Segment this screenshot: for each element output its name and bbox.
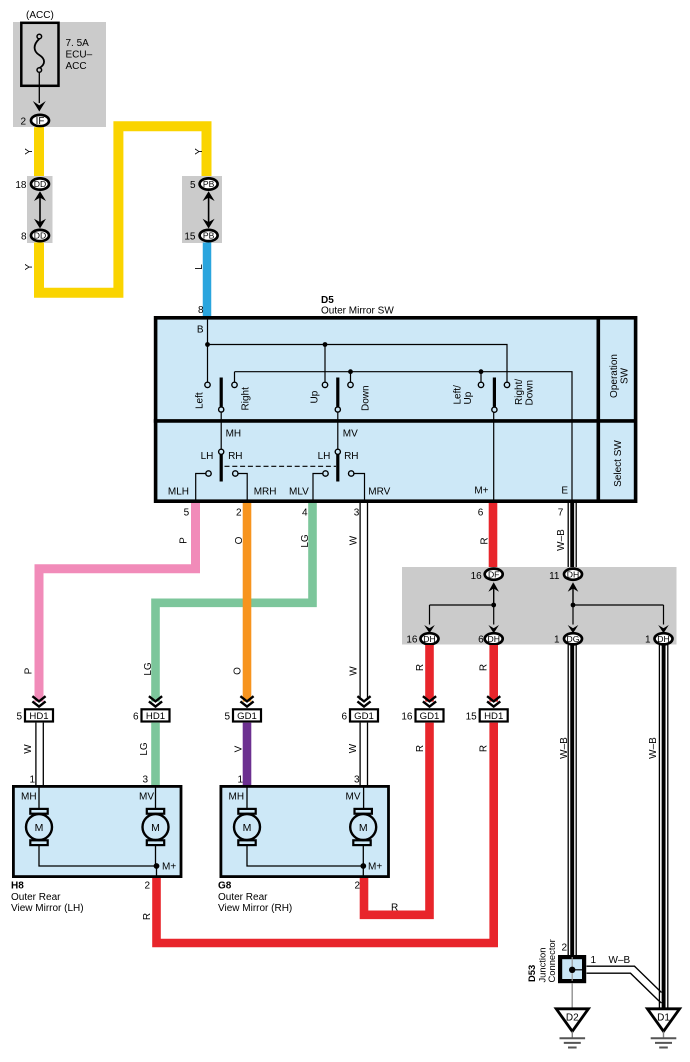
- svg-text:LG: LG: [143, 662, 154, 676]
- svg-text:5: 5: [190, 180, 196, 191]
- double arrow PB5-PB15: [203, 191, 215, 228]
- contact Up: [322, 382, 327, 387]
- connector DD pin 8: [21, 230, 49, 242]
- svg-text:HD1: HD1: [146, 711, 165, 722]
- svg-text:1: 1: [554, 634, 560, 645]
- contact LH (MV): [323, 471, 328, 476]
- wire branch right: [573, 605, 664, 625]
- wire Y (DD8 to PB5): [39, 126, 207, 293]
- wire branch left: [430, 605, 494, 625]
- svg-text:View Mirror (LH): View Mirror (LH): [11, 903, 84, 914]
- connector HD1 pin 5: [16, 709, 53, 722]
- wire W (pin3 to GD1-6): [360, 503, 367, 700]
- svg-text:Right: Right: [241, 387, 252, 411]
- svg-text:Outer Rear: Outer Rear: [11, 892, 61, 903]
- svg-text:Outer Mirror SW: Outer Mirror SW: [321, 306, 394, 317]
- svg-text:W–B: W–B: [609, 955, 631, 966]
- svg-text:8: 8: [198, 305, 204, 316]
- wire MLV: [313, 474, 323, 502]
- mirror H8 Outer Rear View Mirror LH: [13, 786, 181, 876]
- svg-text:MLH: MLH: [168, 487, 189, 498]
- svg-text:HD1: HD1: [29, 711, 48, 722]
- svg-text:Left: Left: [195, 392, 206, 409]
- svg-text:V: V: [234, 745, 245, 752]
- svg-text:11: 11: [549, 571, 560, 582]
- wire W-B (DH1 to D1): [659, 645, 667, 1009]
- connector DH pin 11: [549, 569, 582, 582]
- svg-text:5: 5: [184, 507, 190, 518]
- arrow down into DH1 right: [658, 625, 669, 633]
- svg-text:M: M: [359, 822, 368, 834]
- svg-text:W: W: [23, 744, 34, 754]
- motor M (G8 MH): [234, 809, 260, 845]
- wire W (HD1-5 to H8 pin1): [36, 723, 43, 786]
- arrow up into DH11: [568, 582, 579, 605]
- connector PB pin 15: [184, 230, 217, 242]
- svg-text:LG: LG: [300, 534, 311, 548]
- chevron into HD1-5: [32, 696, 45, 706]
- wire R (DH16 to GD1-16): [425, 645, 434, 702]
- wire MRV: [354, 474, 364, 502]
- wire M+ bus G8: [247, 846, 363, 877]
- svg-text:6: 6: [478, 634, 484, 645]
- svg-text:6: 6: [341, 712, 347, 723]
- node junction below DF: [491, 603, 496, 608]
- wire R (HD1-15 down, loop to H8 pin2): [157, 723, 494, 943]
- contact Left/Up: [478, 382, 483, 387]
- svg-text:P: P: [179, 537, 190, 544]
- ground D1: [647, 1009, 679, 1048]
- svg-text:G8: G8: [218, 881, 232, 892]
- svg-text:MH: MH: [229, 791, 245, 802]
- junction connector D53: [560, 957, 584, 981]
- connector GD1 pin 5: [224, 709, 261, 722]
- wire MV: [337, 412, 339, 449]
- svg-text:IF: IF: [36, 116, 45, 127]
- wire Y (IF to DD18): [34, 127, 44, 177]
- svg-text:RH: RH: [228, 451, 242, 462]
- svg-text:M+: M+: [474, 486, 488, 497]
- svg-text:MRH: MRH: [254, 487, 277, 498]
- svg-text:R: R: [415, 745, 426, 752]
- wire M+: [493, 413, 495, 502]
- svg-text:LG: LG: [139, 742, 150, 756]
- svg-text:Down: Down: [360, 385, 371, 411]
- svg-text:GD1: GD1: [420, 711, 440, 722]
- svg-text:ECU–: ECU–: [66, 50, 93, 61]
- svg-text:W: W: [349, 666, 360, 676]
- svg-text:ACC: ACC: [66, 61, 87, 72]
- connector GD1 pin 16: [401, 709, 443, 722]
- wire W-B (pin7 to DH11): [568, 503, 576, 569]
- svg-text:R: R: [479, 745, 490, 752]
- svg-text:View Mirror (RH): View Mirror (RH): [218, 903, 292, 914]
- svg-text:M: M: [35, 822, 44, 834]
- wire W-B (DG1 to D53): [568, 645, 576, 956]
- svg-text:P: P: [24, 667, 35, 674]
- wire V (GD1-5 to G8 pin1): [243, 723, 252, 786]
- contact LH (MH): [206, 471, 211, 476]
- svg-text:Up: Up: [309, 390, 320, 403]
- svg-text:R: R: [480, 537, 491, 544]
- select pivot MV: [335, 449, 340, 481]
- contact Left: [205, 382, 210, 387]
- svg-text:6: 6: [478, 507, 484, 518]
- wire R (DH6 to HD1-15): [489, 645, 498, 702]
- svg-text:MH: MH: [226, 429, 242, 440]
- connector HD1 pin 6: [133, 709, 170, 722]
- svg-text:Right/: Right/: [514, 379, 525, 405]
- svg-text:LH: LH: [318, 451, 331, 462]
- fuse F ECU-ACC 7.5A: [21, 23, 92, 86]
- svg-text:Y: Y: [24, 263, 35, 270]
- svg-text:MV: MV: [139, 791, 154, 802]
- contact Right: [232, 382, 237, 387]
- fuse block background: [13, 22, 106, 127]
- arrow up into DF: [488, 582, 499, 605]
- svg-text:M+: M+: [162, 862, 176, 873]
- svg-text:D1: D1: [657, 1013, 670, 1024]
- svg-text:16: 16: [471, 571, 483, 582]
- svg-text:DG: DG: [567, 634, 580, 644]
- chevron into GD1-16: [423, 696, 436, 706]
- svg-text:2: 2: [144, 881, 150, 892]
- contact RH (MH): [233, 471, 238, 476]
- svg-text:W–B: W–B: [556, 529, 567, 551]
- motor M (H8 MH): [26, 809, 52, 845]
- svg-text:DH: DH: [657, 634, 669, 644]
- wire W (GD1-6 to G8 pin3): [360, 723, 367, 786]
- wire LG (HD1-6 to H8 pin3): [151, 723, 160, 786]
- svg-text:B: B: [197, 325, 204, 336]
- connector DH pin 6: [478, 633, 503, 645]
- svg-text:W–B: W–B: [648, 737, 659, 759]
- connector DD pin 18: [15, 178, 49, 190]
- svg-text:15: 15: [184, 231, 196, 242]
- contact RH (MV): [349, 471, 354, 476]
- junction block PB background: [182, 176, 222, 243]
- chevron into HD1-6: [149, 696, 162, 706]
- chevron into HD1-15: [487, 696, 500, 706]
- wire W-B (D53 pin1 to D1 run): [587, 966, 662, 1003]
- svg-text:4: 4: [302, 507, 308, 518]
- svg-text:Left/: Left/: [453, 385, 464, 405]
- wire pin3 to motor MV: [155, 786, 157, 809]
- mirror G8 Outer Rear View Mirror RH: [221, 786, 389, 876]
- svg-text:5: 5: [224, 712, 230, 723]
- svg-text:MLV: MLV: [289, 487, 309, 498]
- svg-text:D53: D53: [526, 965, 537, 982]
- svg-text:2: 2: [354, 881, 360, 892]
- wire R (GD1-16 down, loop to G8 pin2): [364, 723, 430, 915]
- svg-text:5: 5: [16, 712, 22, 723]
- svg-text:3: 3: [354, 507, 360, 518]
- wire line2 to E: [235, 369, 573, 501]
- svg-text:GD1: GD1: [354, 711, 374, 722]
- svg-text:R: R: [391, 903, 398, 914]
- wire R (pin6 to DF): [489, 503, 498, 568]
- svg-text:16: 16: [406, 634, 418, 645]
- double arrow DD18-DD8: [34, 191, 46, 228]
- svg-text:MV: MV: [346, 791, 361, 802]
- svg-text:8: 8: [21, 231, 27, 242]
- svg-text:R: R: [415, 664, 426, 671]
- svg-text:M: M: [151, 822, 160, 834]
- connector GD1 pin 6: [341, 709, 378, 722]
- wire fuse to IF with arrow: [33, 72, 46, 111]
- chevron into GD1-5: [240, 696, 253, 706]
- junction band background: [402, 567, 677, 645]
- motor M (H8 MV): [143, 809, 169, 845]
- svg-text:15: 15: [466, 712, 478, 723]
- svg-text:Up: Up: [463, 391, 474, 404]
- switch lever 1: [219, 378, 224, 413]
- svg-text:Y: Y: [24, 148, 35, 155]
- svg-text:D2: D2: [566, 1013, 579, 1024]
- wire LG (pin4 to HD1-6): [156, 503, 313, 702]
- switch lever 2: [335, 378, 340, 413]
- svg-text:W: W: [348, 743, 359, 753]
- svg-text:2: 2: [20, 116, 26, 127]
- svg-text:DH: DH: [423, 634, 435, 644]
- svg-text:Connector: Connector: [546, 939, 557, 982]
- svg-text:2: 2: [236, 507, 242, 518]
- wire O (pin2 to GD1-5): [243, 503, 252, 702]
- svg-text:6: 6: [133, 712, 139, 723]
- svg-text:PB: PB: [203, 231, 215, 241]
- svg-text:1: 1: [591, 955, 597, 966]
- connector DH pin 1: [645, 633, 673, 645]
- motor M (G8 MV): [350, 809, 376, 845]
- svg-text:DH: DH: [487, 634, 499, 644]
- contact Right/Down: [504, 382, 509, 387]
- svg-text:1: 1: [29, 775, 35, 786]
- svg-text:MV: MV: [343, 429, 358, 440]
- svg-text:MH: MH: [21, 791, 37, 802]
- svg-text:Select SW: Select SW: [613, 440, 624, 487]
- wire L (PB15 to D5 pin 8): [203, 243, 212, 318]
- svg-text:SW: SW: [620, 367, 631, 384]
- svg-text:DD: DD: [34, 231, 46, 241]
- pin numbers bottom of D5: [184, 507, 564, 518]
- svg-text:7. 5A: 7. 5A: [66, 38, 90, 49]
- svg-text:3: 3: [142, 775, 148, 786]
- svg-text:3: 3: [354, 775, 360, 786]
- chevron into GD1-6: [357, 696, 370, 706]
- junction block DD background: [27, 176, 53, 243]
- connector IF pin 2: [20, 115, 49, 127]
- svg-text:H8: H8: [11, 881, 24, 892]
- svg-text:7: 7: [558, 507, 564, 518]
- dashed link between select levers: [225, 465, 337, 467]
- svg-text:1: 1: [237, 775, 243, 786]
- connector DF pin 16: [471, 569, 503, 582]
- wire P (pin5 to HD1-5): [39, 503, 196, 702]
- svg-text:M+: M+: [368, 862, 382, 873]
- svg-text:D5: D5: [321, 295, 334, 306]
- svg-text:(ACC): (ACC): [26, 10, 54, 21]
- arrow down into DG1: [568, 605, 579, 633]
- wire pin1 to motor MH: [246, 786, 248, 809]
- node junction below DH11: [571, 603, 576, 608]
- svg-text:Operation: Operation: [609, 354, 620, 398]
- svg-text:L: L: [194, 264, 205, 270]
- svg-text:PB: PB: [203, 179, 215, 189]
- svg-text:Y: Y: [194, 148, 205, 155]
- connector PB pin 5: [190, 178, 218, 190]
- svg-text:RH: RH: [344, 451, 358, 462]
- contact Down: [348, 382, 353, 387]
- svg-text:1: 1: [645, 634, 651, 645]
- svg-text:18: 18: [15, 180, 27, 191]
- arrow down into DH6: [488, 605, 499, 633]
- wire M+ bus H8: [39, 846, 157, 877]
- wire MH: [220, 412, 222, 449]
- wire D53 to D2 ground: [571, 983, 573, 1008]
- wire B bus line1: [205, 320, 507, 382]
- svg-text:GD1: GD1: [237, 711, 257, 722]
- select pivot MH: [219, 449, 224, 481]
- connector DG pin 1: [554, 633, 582, 645]
- wire MLH: [196, 474, 206, 502]
- svg-text:W–B: W–B: [559, 737, 570, 759]
- node M+ G8: [360, 863, 366, 869]
- node M+ H8: [154, 863, 160, 869]
- svg-text:DD: DD: [34, 179, 46, 189]
- connector HD1 pin 15: [466, 709, 508, 722]
- wire pin3 to motor MV: [363, 786, 365, 809]
- svg-text:MRV: MRV: [368, 487, 390, 498]
- switch lever 3: [492, 378, 497, 413]
- svg-text:W: W: [349, 535, 360, 545]
- switch D5 Outer Mirror SW: [154, 295, 636, 502]
- svg-text:16: 16: [401, 712, 413, 723]
- svg-text:2: 2: [561, 943, 567, 954]
- svg-text:O: O: [233, 667, 244, 675]
- svg-text:M: M: [243, 822, 252, 834]
- wire MRH: [238, 474, 247, 502]
- svg-text:DH: DH: [567, 569, 579, 579]
- svg-text:Outer Rear: Outer Rear: [218, 892, 268, 903]
- svg-text:HD1: HD1: [484, 711, 503, 722]
- connector DH pin 16: [406, 633, 438, 645]
- arrow down into DH16: [424, 625, 435, 633]
- ground D2: [556, 1009, 588, 1048]
- svg-text:LH: LH: [201, 451, 214, 462]
- svg-text:R: R: [142, 913, 153, 920]
- svg-text:E: E: [561, 486, 568, 497]
- svg-text:DF: DF: [488, 569, 499, 579]
- wire pin1 to motor MH: [38, 786, 40, 809]
- svg-text:Down: Down: [525, 380, 536, 406]
- svg-text:R: R: [479, 664, 490, 671]
